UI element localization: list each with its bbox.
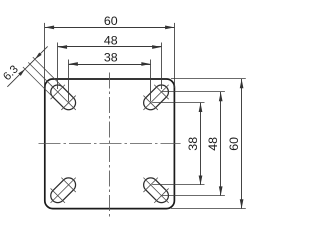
svg-text:48: 48 xyxy=(104,33,118,47)
svg-text:60: 60 xyxy=(227,137,241,151)
svg-text:38: 38 xyxy=(104,50,118,64)
svg-text:48: 48 xyxy=(206,137,220,151)
svg-text:38: 38 xyxy=(186,137,200,151)
svg-text:60: 60 xyxy=(104,14,118,28)
